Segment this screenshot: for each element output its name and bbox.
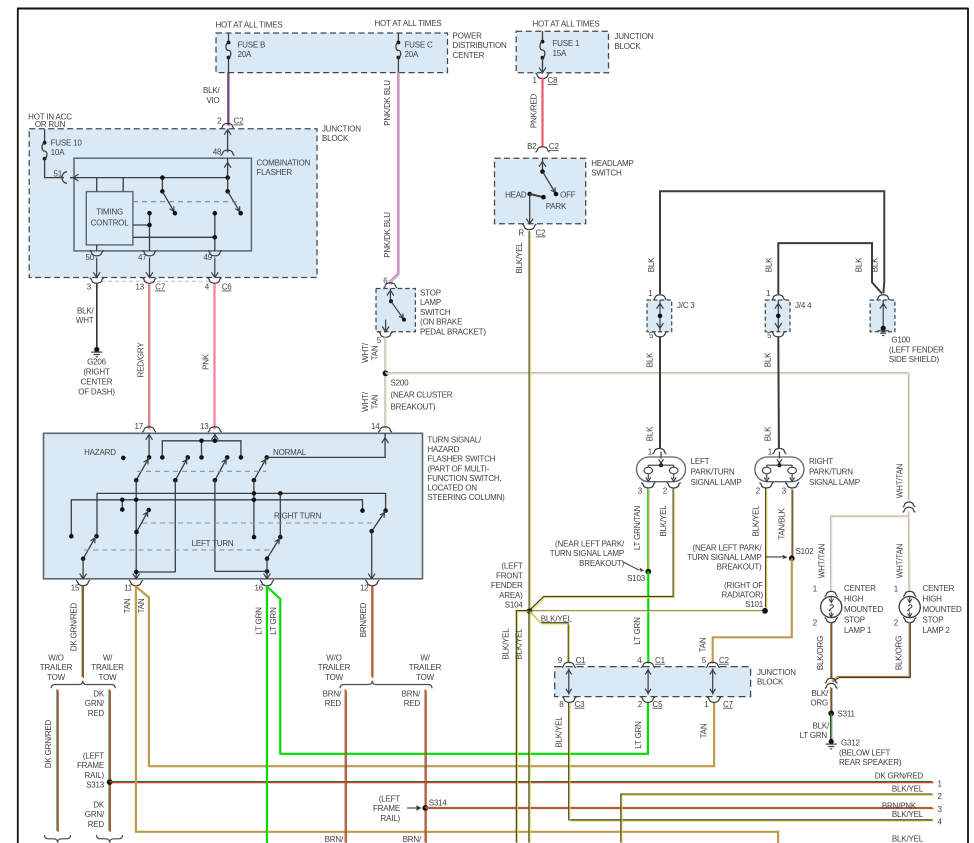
wire BLK/YEL S104 to S101 [529,610,765,612]
flasher switch 1 fixed contact from timing control [133,224,150,226]
svg-text:RADIATOR): RADIATOR) [722,591,764,600]
svg-text:LT GRN: LT GRN [634,721,643,749]
svg-text:BLK/YEL: BLK/YEL [659,505,668,537]
right park lamp pin 3 connector [785,483,799,489]
svg-text:RED: RED [88,709,105,718]
svg-text:C5: C5 [653,700,664,709]
svg-text:BLK/: BLK/ [203,86,221,95]
svg-text:LT GRN: LT GRN [255,607,264,635]
svg-text:CENTER: CENTER [81,378,113,387]
svg-text:DK GRN/RED: DK GRN/RED [70,602,79,651]
wire DK GRN/RED switch pin 15 down to split [81,585,83,677]
svg-text:TURN SIGNAL LAMP: TURN SIGNAL LAMP [550,549,624,558]
svg-text:STEERING COLUMN): STEERING COLUMN) [427,493,505,502]
svg-text:HEADLAMP: HEADLAMP [591,159,633,168]
svg-text:13: 13 [136,283,145,292]
svg-text:BLK: BLK [645,426,654,441]
wire pin 2 C2 to flasher pin 48 inside junction block [227,130,229,153]
flasher pin 50 [96,245,98,251]
svg-text:FENDER: FENDER [491,581,523,590]
svg-text:TAN: TAN [137,598,146,613]
wire LT GRN switch pin 16 branch 1 (to bottom edge) [266,586,268,843]
svg-text:POWER: POWER [453,32,483,41]
svg-text:LT GRN: LT GRN [800,731,828,740]
svg-text:FUNCTION SWITCH,: FUNCTION SWITCH, [427,474,501,483]
wire TAN switch pin 11 branch 1 (to bottom run) [136,586,778,843]
flasher pin 47 [143,250,157,256]
stop lamp switch internals [389,289,391,302]
left park/turn signal lamp [652,448,666,453]
svg-text:FRAME: FRAME [373,804,400,813]
junction block pin 4 C1 connector [641,662,655,668]
bus B (lower horizontal) [71,500,362,536]
splice S200 [383,370,389,376]
wire BLK/YEL to right edge (circuit 2) [621,794,933,842]
wire PNK/RED fuse 1 C8 to headlamp switch B2 [541,78,543,148]
right park lamp pin 2 connector [759,483,773,489]
wire BLK/YEL S104 branch down (to bottom edge) [528,611,530,843]
switch arm 2 [175,457,188,480]
svg-text:TAN: TAN [371,394,380,409]
flasher switch 2 arm [228,191,241,213]
flasher switch 2 contact stub [227,178,229,192]
svg-text:OF DASH): OF DASH) [78,387,115,396]
junction dot bus/pin48 [225,175,230,180]
svg-text:20A: 20A [238,50,252,59]
svg-text:JUNCTION: JUNCTION [614,32,653,41]
svg-text:STOP: STOP [420,289,441,298]
left park lamp pin 3 connector [641,483,655,489]
svg-text:TAN: TAN [699,637,708,652]
svg-text:16: 16 [255,584,264,593]
svg-text:W/O: W/O [326,654,341,663]
svg-text:14: 14 [371,422,380,431]
svg-text:FLASHER: FLASHER [257,168,293,177]
wire BLK/YEL headlamp switch R to S104 [528,231,530,608]
svg-text:5: 5 [649,331,654,340]
svg-text:C2: C2 [549,142,560,151]
svg-text:LT GRN/TAN: LT GRN/TAN [633,505,642,550]
svg-text:TOW: TOW [99,673,118,682]
svg-text:17: 17 [135,422,144,431]
wire PNK/DK BLU fuse C to stop lamp switch pin 6 [390,72,398,284]
svg-text:(NEAR LEFT PARK/: (NEAR LEFT PARK/ [693,543,763,552]
wire from fuse 10 to combination flasher pin 51 [45,159,64,178]
svg-text:LAMP 2: LAMP 2 [923,626,951,635]
svg-text:BLOCK: BLOCK [322,134,349,143]
svg-text:RED: RED [325,699,342,708]
svg-text:AREA): AREA) [499,591,523,600]
inline connector on WHT/TAN [903,502,916,507]
fuse 10 10A [44,130,46,143]
wire LT GRN/TAN left park lamp pin 3 to S103 [647,488,649,571]
svg-text:SWITCH: SWITCH [420,308,451,317]
svg-text:JUNCTION: JUNCTION [322,125,361,134]
svg-text:W/O: W/O [48,654,63,663]
svg-text:1: 1 [648,289,653,298]
svg-text:MOUNTED: MOUNTED [923,605,962,614]
svg-text:PARK: PARK [546,202,567,211]
svg-text:S104: S104 [505,601,524,610]
splice S101 [762,608,768,614]
junction block pin 8 C3 connector [562,697,576,703]
vertical from arm4 through buses to right-turn contact [253,480,255,537]
connector C8 pin 1 [536,73,550,79]
svg-text:TRAILER: TRAILER [40,663,73,672]
svg-text:PNK/DK BLU: PNK/DK BLU [383,212,392,258]
svg-text:WHT/TAN: WHT/TAN [896,463,905,498]
wire TAN/BLK right park lamp pin 3 to S102 [791,488,793,557]
left-turn switch (pin 15) arm [83,536,96,559]
wire DK GRN/RED w/o trailer tow branch [56,689,58,831]
switch pin 15 connector [76,580,90,586]
svg-text:(LEFT FENDER: (LEFT FENDER [889,345,944,354]
svg-text:10A: 10A [51,148,65,157]
svg-text:TAN/BLK: TAN/BLK [778,507,787,539]
wire to pin 14 from normal contact [267,433,385,457]
svg-text:J/C 3: J/C 3 [677,301,695,310]
svg-text:RAIL): RAIL) [85,771,105,780]
junction block pin 4 connector C6 [208,278,222,284]
svg-text:TOW: TOW [416,673,435,682]
flasher switch 2 fixed contact from timing control [133,236,215,238]
feed drop to timing control (left) [96,178,98,192]
vertical from arm3 down [214,480,216,571]
svg-text:1: 1 [766,289,771,298]
wire BLK/LT GRN S311 to G312 [830,713,832,740]
svg-text:PARK/TURN: PARK/TURN [809,468,853,477]
splice S311 [828,711,834,717]
junction block pin 1 C7 connector [707,697,721,703]
left park lamp pin 2 connector [667,483,681,489]
mechanical link dashed (right turn row) [142,522,377,524]
svg-text:BLK: BLK [854,257,863,272]
splice S102 [789,555,795,561]
flasher mechanical link (dashed) [133,201,241,203]
wire BRN/RED w/ trailer tow branch [424,689,426,842]
svg-text:BLK: BLK [764,257,773,272]
wire BRN/RED w/o trailer tow branch [344,689,346,842]
svg-text:13: 13 [200,422,209,431]
svg-text:BLK: BLK [647,257,656,272]
U link arm3 to pin 16 [215,570,267,572]
svg-text:REAR SPEAKER): REAR SPEAKER) [839,758,902,767]
headlamp switch box [495,158,586,224]
svg-text:BLK/ORG: BLK/ORG [816,636,825,670]
switch arm 4 [254,457,267,480]
svg-text:BLK/: BLK/ [812,722,830,731]
svg-text:OFF: OFF [560,191,576,200]
svg-text:LT GRN: LT GRN [269,607,278,635]
svg-text:50: 50 [86,253,95,262]
svg-text:LOCATED ON: LOCATED ON [427,484,477,493]
svg-text:FUSE B: FUSE B [238,40,266,49]
connector B2 C2 (headlamp switch) [536,147,550,152]
inline connector on BLK/ORG [825,678,838,683]
svg-text:FUSE C: FUSE C [405,40,434,49]
connector C2 pin 2 (junction block top) [221,123,235,128]
svg-text:(NEAR LEFT PARK/: (NEAR LEFT PARK/ [555,540,625,549]
center high mounted stop lamp 1 [825,591,838,596]
wire BLK/YEL junction pin 8 to right edge (circuit 4) [569,702,933,820]
switch pin 16 connector [260,580,274,586]
svg-text:RAIL): RAIL) [381,814,401,823]
svg-text:DISTRIBUTION: DISTRIBUTION [453,41,507,50]
ground G206 (right center of dash) [94,347,99,352]
wire LT GRN switch pin 16 branch 2 (to C5 run) [267,587,648,754]
switch pin 11 connector [129,580,143,586]
junction block pin 3 connector [90,278,104,284]
svg-text:S200: S200 [391,379,410,388]
svg-text:C2: C2 [719,656,730,665]
svg-text:5: 5 [767,331,772,340]
svg-text:TURN SIGNAL/: TURN SIGNAL/ [427,436,482,445]
wire DK GRN/RED from S313 to right edge (circuit 1) [109,781,932,783]
svg-text:DK: DK [93,801,105,810]
flasher switch 1 arm [162,191,175,213]
timing control box [86,192,133,245]
svg-text:C7: C7 [155,283,166,292]
fixed contact for left-turn mid switch [146,508,151,513]
svg-text:TOW: TOW [47,673,66,682]
svg-text:HEAD: HEAD [505,191,527,200]
svg-text:GRN/: GRN/ [85,810,105,819]
svg-text:TAN: TAN [371,345,380,360]
svg-text:HAZARD: HAZARD [427,445,459,454]
svg-text:20A: 20A [405,50,419,59]
wire LT GRN S103 to junction block pin 4 C1 [647,572,649,664]
svg-text:49: 49 [204,253,213,262]
svg-text:C2: C2 [536,229,547,238]
svg-text:LAMP: LAMP [420,298,441,307]
mechanical link dashed (left turn row) [84,549,270,551]
wire BLK/YEL left park lamp pin 2 to S104 [529,488,673,610]
contact dot pin 17 [147,455,152,460]
junction block box (fuse 1) [516,31,608,73]
svg-text:G206: G206 [87,358,107,367]
combination flasher box [74,158,251,251]
svg-text:CENTER: CENTER [923,584,955,593]
svg-text:(NEAR CLUSTER: (NEAR CLUSTER [391,391,453,400]
junction block pin 5 C2 connector [706,662,720,668]
center high mounted stop lamp 2 [903,591,916,596]
svg-text:WHT: WHT [76,316,94,325]
svg-text:TAN: TAN [123,598,132,613]
wire BLK/VIO from fuse B to C2 pin 2 [227,72,229,125]
arrow into pin 51 [73,174,78,181]
svg-text:(LEFT: (LEFT [379,795,401,804]
svg-text:FRAME: FRAME [77,761,104,770]
svg-text:BRN/: BRN/ [325,835,344,843]
svg-text:15: 15 [71,584,80,593]
svg-text:(PART OF MULTI-: (PART OF MULTI- [427,464,489,473]
wire BLK J/4 pin 1 to G100 [778,243,882,294]
svg-text:DK GRN/RED: DK GRN/RED [44,719,53,768]
junction block pin 9 C1 connector [562,662,576,668]
svg-text:B2: B2 [527,142,537,151]
turn signal/hazard flasher switch box [44,433,423,579]
svg-text:LEFT: LEFT [691,457,710,466]
svg-text:LT GRN: LT GRN [633,617,642,645]
svg-text:C1: C1 [655,656,666,665]
right park/turn signal lamp [772,448,786,453]
svg-text:(RIGHT: (RIGHT [83,367,110,376]
svg-text:HIGH: HIGH [844,594,864,603]
svg-text:NORMAL: NORMAL [273,448,307,457]
wire BLK/ORG stop lamp 1 down [830,622,832,678]
svg-text:BLOCK: BLOCK [614,42,641,51]
svg-text:HOT AT ALL TIMES: HOT AT ALL TIMES [215,21,282,30]
svg-text:BLK/: BLK/ [77,307,95,316]
svg-text:DK: DK [93,690,105,699]
junction block internal links [568,669,570,695]
junction block box (left) [29,129,317,278]
svg-text:(RIGHT OF: (RIGHT OF [724,581,763,590]
svg-text:WHT/: WHT/ [361,342,370,363]
svg-text:S313: S313 [86,781,105,790]
svg-text:SIGNAL LAMP: SIGNAL LAMP [809,478,860,487]
svg-text:SWITCH: SWITCH [591,169,622,178]
svg-text:WHT/: WHT/ [361,391,370,412]
wire BLK/YEL S104 branch left (to bottom edge) [516,611,529,843]
wire BRN/RED switch pin 12 down to split [371,585,373,677]
svg-text:BLOCK: BLOCK [757,678,784,687]
wire RED/GRY pin 13 C7 to switch pin 17 [148,283,150,428]
connector pin 14 of turn signal switch [378,427,392,432]
mechanical link dashed (hazard row) [137,470,266,472]
svg-text:RIGHT TURN: RIGHT TURN [274,512,321,521]
svg-text:SIDE SHIELD): SIDE SHIELD) [889,355,940,364]
connector R C2 (headlamp switch output) [522,224,536,230]
svg-text:JUNCTION: JUNCTION [757,668,796,677]
svg-text:C8: C8 [548,76,559,85]
connector pin 13 of turn signal switch [208,427,222,432]
wire BLK loop J/C3 pin 1 to G100 [660,191,884,294]
normal feed bracket from pin 13 [162,441,241,458]
feed drop to timing control (right) [122,178,124,192]
wire BLK J/4 pin 5 to right park lamp [777,336,780,449]
wire BLK J/C3 pin 5 to left park lamp [659,336,661,449]
page border frame [17,8,969,10]
wire WHT/TAN stop lamp switch to S200 to switch pin 14 [384,336,386,428]
svg-text:MOUNTED: MOUNTED [844,605,883,614]
svg-text:G100: G100 [891,336,911,345]
svg-text:15A: 15A [553,49,567,58]
vertical bus A to right-turn contact [279,493,281,537]
svg-text:(LEFT: (LEFT [501,562,523,571]
fuse 1 15A [542,31,544,41]
svg-text:STOP: STOP [844,615,865,624]
svg-text:BRN/: BRN/ [403,835,422,843]
svg-text:WHT/TAN: WHT/TAN [896,543,905,578]
vertical from arm2 down [174,480,176,572]
svg-text:HIGH: HIGH [923,594,943,603]
svg-text:J/4 4: J/4 4 [795,301,812,310]
svg-text:1: 1 [532,76,537,85]
svg-text:TRAILER: TRAILER [409,663,442,672]
svg-text:LAMP 1: LAMP 1 [844,626,872,635]
svg-text:RED/GRY: RED/GRY [137,342,146,378]
svg-text:PNK/DK BLU: PNK/DK BLU [383,80,392,126]
svg-text:PARK/TURN: PARK/TURN [691,468,735,477]
svg-text:HOT AT ALL TIMES: HOT AT ALL TIMES [532,20,599,29]
svg-text:ORG: ORG [810,699,828,708]
svg-text:G312: G312 [841,739,861,748]
junction block pin 2 C5 connector [641,697,655,703]
svg-text:TAN: TAN [700,723,709,738]
svg-text:(BELOW LEFT: (BELOW LEFT [839,749,890,758]
stop lamp switch pin 5 connector [379,332,393,338]
svg-text:12: 12 [360,584,369,593]
wire BLK/YEL right park lamp pin 2 to S101 [765,488,767,607]
svg-text:S103: S103 [627,574,646,583]
svg-text:C1: C1 [576,656,587,665]
switch pin 13 entry arrow [212,435,219,440]
wire BLK/WHT pin 3 to G206 [96,284,98,348]
svg-text:CENTER: CENTER [453,51,485,60]
right-turn switch (pin 16) arm [267,537,280,559]
svg-text:FUSE 1: FUSE 1 [553,39,581,48]
svg-text:BRN/: BRN/ [323,690,342,699]
svg-text:TRAILER: TRAILER [318,663,351,672]
headlamp switch internals [542,158,544,171]
svg-text:HOT AT ALL TIMES: HOT AT ALL TIMES [374,19,441,28]
svg-text:DK GRN/RED: DK GRN/RED [875,772,924,781]
stop lamp switch box [376,289,415,332]
splice S313 [107,779,113,785]
svg-text:C2: C2 [234,117,245,126]
bus A (upper horizontal) [97,493,386,536]
wire TAN switch pin 11 branch 2 (to C7 run) [136,587,714,767]
brace at bottom of w/ branch [97,835,123,843]
wire BLK/ORG stop lamp 2 down and left [832,622,910,681]
left-turn mid switch (pin 11) arm [137,510,149,532]
svg-text:R: R [518,229,524,238]
svg-text:(ON BRAKE: (ON BRAKE [420,318,462,327]
svg-text:BLK/YEL: BLK/YEL [892,835,924,843]
svg-text:BRN/PNK: BRN/PNK [882,802,917,811]
split brace for pin 12 wire [340,681,432,689]
switch pin 12 connector [365,580,379,586]
svg-text:PEDAL BRACKET): PEDAL BRACKET) [420,327,486,336]
svg-text:BREAKOUT): BREAKOUT) [717,563,762,572]
svg-text:C7: C7 [723,700,734,709]
svg-text:COMBINATION: COMBINATION [257,159,311,168]
svg-text:CENTER: CENTER [844,584,876,593]
svg-text:FUSE 10: FUSE 10 [51,138,83,147]
switch pin 17 wire [148,433,150,457]
connector pin 17 of turn signal switch [142,427,156,432]
svg-text:47: 47 [138,253,147,262]
svg-text:S102: S102 [796,547,815,556]
fuse C 20A [397,33,399,42]
svg-text:FLASHER SWITCH: FLASHER SWITCH [427,455,495,464]
svg-text:OR RUN: OR RUN [35,120,66,129]
split brace for pin 15 wire [51,681,115,689]
svg-text:BLK/YEL: BLK/YEL [541,614,573,623]
svg-text:VIO: VIO [206,96,219,105]
svg-text:BLK/YEL: BLK/YEL [502,628,511,660]
flasher internal feed bus from pin 51 [70,177,228,179]
svg-text:S101: S101 [745,600,764,609]
bus B stub contact [121,500,123,510]
svg-text:TOW: TOW [325,673,344,682]
svg-text:S314: S314 [429,799,448,808]
svg-text:W/: W/ [420,654,430,663]
switch arm 3 [215,457,227,480]
wire DK GRN/RED w/ trailer tow branch [108,689,110,831]
svg-text:TRAILER: TRAILER [91,663,124,672]
